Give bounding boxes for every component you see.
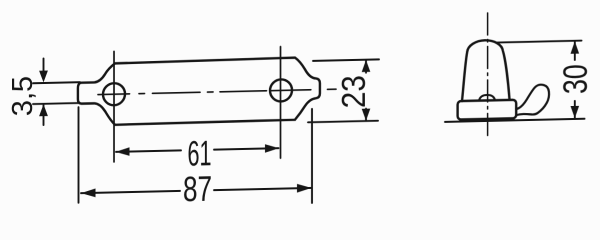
svg-text:3,5: 3,5 — [7, 76, 39, 117]
svg-text:30: 30 — [557, 64, 595, 95]
svg-text:23: 23 — [336, 75, 373, 109]
svg-text:87: 87 — [183, 169, 212, 209]
